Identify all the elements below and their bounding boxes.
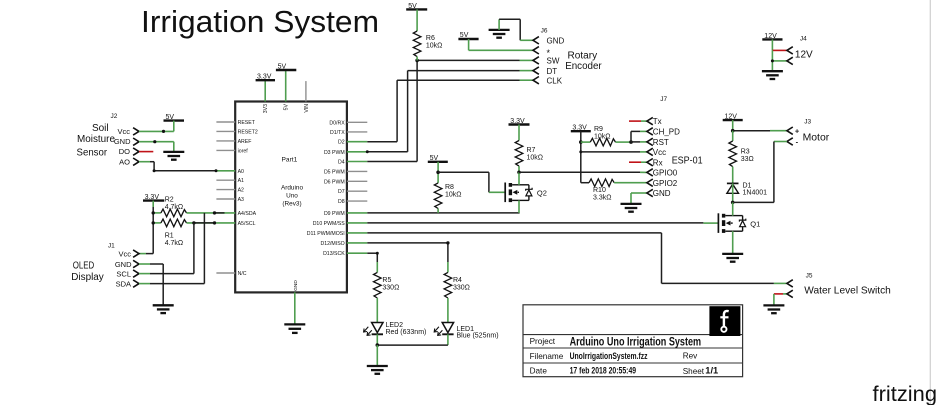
resistor R4 330 bbox=[444, 262, 470, 323]
wire junction to Q2 gate bbox=[438, 172, 505, 192]
svg-text:A2: A2 bbox=[238, 188, 244, 194]
wire R2 to A4/SDA bbox=[187, 212, 217, 214]
diode D1 1N4001 bbox=[727, 183, 767, 203]
svg-text:GPIO2: GPIO2 bbox=[653, 179, 678, 188]
svg-text:DO: DO bbox=[119, 147, 130, 156]
power 5V for J2 bbox=[164, 114, 185, 121]
ground below arduino bbox=[284, 324, 305, 333]
svg-text:J6: J6 bbox=[541, 27, 548, 34]
connector J3 motor arrows bbox=[787, 127, 793, 145]
svg-text:Moisture: Moisture bbox=[77, 134, 115, 145]
wire segment on A4 row bbox=[215, 212, 225, 214]
svg-text:A4/SDA: A4/SDA bbox=[238, 211, 257, 217]
svg-text:R5: R5 bbox=[382, 277, 391, 284]
junction dot J4 pin2 tee bbox=[771, 59, 774, 62]
arduino top/bottom rotated pin labels bbox=[263, 103, 310, 290]
resistor R3 33ohm bbox=[729, 131, 754, 184]
junction dot LED ground node bbox=[376, 343, 380, 347]
wire D4 to encoder SW bbox=[367, 60, 519, 161]
power 3.3V left rail bbox=[143, 194, 164, 201]
wire D12 to R4 bbox=[367, 243, 448, 262]
svg-text:ESP-01: ESP-01 bbox=[672, 156, 703, 167]
svg-text:D0/RX: D0/RX bbox=[329, 120, 345, 126]
ground for J2 bbox=[163, 152, 184, 160]
screen right edge line bbox=[929, 0, 931, 405]
svg-text:OLED: OLED bbox=[73, 260, 95, 271]
LED1 blue bbox=[434, 323, 498, 346]
wire J4 pin1 bbox=[772, 39, 787, 50]
resistor R6 10k bbox=[413, 9, 442, 60]
connector J4 arrows bbox=[787, 47, 793, 65]
svg-text:Project: Project bbox=[530, 337, 556, 346]
svg-text:Rx: Rx bbox=[653, 158, 663, 167]
svg-text:Sensor: Sensor bbox=[77, 148, 108, 159]
power 5V above R8 bbox=[428, 155, 448, 162]
J7 labels bbox=[653, 96, 703, 198]
connector J6 rotary encoder arrows bbox=[533, 37, 539, 84]
svg-text:GND: GND bbox=[547, 36, 565, 45]
red stub ESP Tx bbox=[629, 120, 647, 122]
wire R1 to A5/SCL bbox=[187, 222, 217, 224]
junction dot R8 top bbox=[436, 171, 440, 175]
svg-text:D1/TX: D1/TX bbox=[330, 130, 345, 136]
svg-text:R10: R10 bbox=[593, 187, 606, 194]
svg-text:10kΩ: 10kΩ bbox=[527, 154, 544, 161]
svg-text:Q2: Q2 bbox=[537, 188, 547, 197]
svg-text:330Ω: 330Ω bbox=[453, 284, 470, 291]
power 3.3V above arduino bbox=[256, 74, 275, 81]
svg-text:D5 PWM: D5 PWM bbox=[324, 169, 345, 175]
power 12V for J4 bbox=[762, 33, 782, 40]
arduino right gray stubs bbox=[306, 81, 367, 201]
svg-text:Filename: Filename bbox=[530, 352, 564, 361]
svg-text:RESET: RESET bbox=[238, 120, 256, 126]
svg-text:J7: J7 bbox=[660, 96, 667, 103]
wire to CH_PD bbox=[631, 131, 640, 142]
svg-text:Soil: Soil bbox=[92, 123, 109, 134]
svg-text:R9: R9 bbox=[594, 126, 603, 133]
svg-text:Part1: Part1 bbox=[282, 157, 298, 164]
resistor R9 10k bbox=[581, 126, 631, 146]
wire to RST bbox=[631, 141, 640, 143]
red stub J2 DO bbox=[139, 151, 153, 153]
svg-text:J1: J1 bbox=[108, 243, 115, 250]
svg-text:D3 PWM: D3 PWM bbox=[324, 150, 345, 156]
transistor Q1 bbox=[718, 202, 760, 253]
svg-text:VIN: VIN bbox=[304, 104, 310, 113]
encoder green pin legs bbox=[520, 60, 534, 80]
Q1 source down to ground bbox=[732, 231, 734, 253]
svg-text:J4: J4 bbox=[800, 36, 807, 43]
svg-text:Q1: Q1 bbox=[750, 219, 760, 228]
wire J2 Vcc to 5V bbox=[139, 121, 174, 132]
Q1 drain up to node bbox=[732, 202, 734, 215]
svg-text:R4: R4 bbox=[453, 277, 462, 284]
svg-text:3.3V: 3.3V bbox=[510, 118, 525, 125]
wire to Vcc bbox=[581, 151, 640, 153]
junction dot D1 anode / Q1 drain / motor minus bbox=[731, 201, 735, 205]
resistor R5 330 bbox=[374, 262, 400, 323]
connector J1 OLED display bbox=[71, 243, 132, 289]
svg-text:12V: 12V bbox=[764, 33, 777, 40]
svg-text:A0: A0 bbox=[238, 169, 244, 175]
svg-text:+: + bbox=[795, 126, 800, 135]
svg-text:12V: 12V bbox=[725, 114, 738, 121]
svg-text:Tx: Tx bbox=[653, 117, 662, 126]
svg-text:R1: R1 bbox=[165, 232, 174, 239]
svg-text:Red (633nm): Red (633nm) bbox=[386, 329, 427, 336]
svg-text:D4: D4 bbox=[338, 160, 345, 166]
power 3.3V above R7 bbox=[509, 118, 530, 125]
svg-text:D13/SCK: D13/SCK bbox=[323, 251, 345, 257]
wire motor minus to drain node bbox=[733, 142, 787, 203]
svg-text:3.3kΩ: 3.3kΩ bbox=[593, 194, 611, 201]
svg-text:1/1: 1/1 bbox=[705, 366, 718, 376]
junction dot R9 right / CH_PD / RST bbox=[629, 140, 633, 144]
Q2 source down to D9 wire bbox=[518, 200, 520, 213]
svg-text:D11 PWM/MOSI: D11 PWM/MOSI bbox=[307, 231, 345, 237]
red stub J5 pin2 bbox=[774, 294, 787, 305]
junction dot at D3 stub bbox=[366, 150, 369, 153]
J1 pin arrows bbox=[133, 250, 139, 287]
LED2 red bbox=[364, 322, 427, 345]
svg-text:RESET2: RESET2 bbox=[238, 129, 258, 135]
title block table bbox=[523, 305, 743, 377]
connector J5 arrows bbox=[787, 280, 793, 298]
svg-text:GND: GND bbox=[115, 260, 132, 269]
ESP 3.3V rail down bbox=[581, 131, 589, 183]
resistor R7 10k bbox=[515, 125, 543, 173]
svg-text:SW: SW bbox=[547, 57, 560, 66]
svg-text:AO: AO bbox=[119, 157, 130, 166]
resistor R1 4.7k bbox=[153, 219, 186, 247]
ground for encoder bbox=[489, 30, 510, 38]
svg-text:GND: GND bbox=[293, 280, 299, 291]
ground for Q1 bbox=[722, 254, 743, 262]
VIN top gray stub bbox=[305, 81, 307, 101]
connector J2 soil moisture sensor bbox=[77, 113, 132, 167]
junction dot on Vcc wire bbox=[162, 130, 165, 133]
ground for LEDs bbox=[367, 366, 388, 374]
svg-text:R7: R7 bbox=[527, 147, 536, 154]
svg-text:D8: D8 bbox=[338, 199, 345, 205]
svg-text:J2: J2 bbox=[111, 113, 118, 120]
wire node to ground bbox=[376, 345, 378, 365]
wire 5V to encoder plus bbox=[469, 39, 533, 50]
svg-text:Arduino Uno Irrigation System: Arduino Uno Irrigation System bbox=[570, 334, 702, 348]
svg-text:Motor: Motor bbox=[803, 133, 830, 144]
svg-text:5V: 5V bbox=[408, 3, 417, 10]
svg-text:17 feb 2018 20:55:49: 17 feb 2018 20:55:49 bbox=[570, 366, 637, 376]
svg-text:Uno: Uno bbox=[286, 192, 298, 199]
junction dot 12V/R3/motor bbox=[731, 129, 735, 133]
svg-text:A3: A3 bbox=[238, 197, 244, 203]
svg-text:R6: R6 bbox=[426, 35, 435, 42]
svg-text:J3: J3 bbox=[804, 119, 811, 126]
wire 12V to motor plus bbox=[733, 120, 787, 131]
svg-text:10kΩ: 10kΩ bbox=[426, 43, 443, 50]
svg-text:10kΩ: 10kΩ bbox=[594, 133, 611, 140]
arduino U1 body bbox=[235, 102, 347, 293]
wire J1 SCL to A5 rail bbox=[139, 223, 194, 274]
junction dots on R1/R2 rails bbox=[152, 211, 217, 224]
svg-text:10kΩ: 10kΩ bbox=[445, 191, 462, 198]
svg-text:3.3V: 3.3V bbox=[145, 194, 160, 201]
svg-text:5V: 5V bbox=[166, 114, 175, 121]
wire J2 AO to arduino A0 bbox=[139, 162, 218, 173]
svg-text:Encoder: Encoder bbox=[565, 61, 602, 72]
J4 labels bbox=[795, 36, 813, 61]
svg-text:3.3V: 3.3V bbox=[572, 125, 587, 132]
svg-text:R2: R2 bbox=[165, 197, 174, 204]
svg-text:GND: GND bbox=[114, 137, 131, 146]
svg-text:12V: 12V bbox=[795, 50, 813, 61]
power 5V for encoder plus bbox=[458, 32, 478, 39]
power 3.3V for ESP bbox=[571, 125, 591, 132]
resistor R10 3.3k bbox=[589, 179, 647, 201]
svg-text:330Ω: 330Ω bbox=[382, 284, 399, 291]
svg-text:D6 PWM: D6 PWM bbox=[324, 179, 345, 185]
resistor R8 10k bbox=[434, 162, 461, 213]
svg-text:D2: D2 bbox=[338, 140, 345, 146]
ground for J4 bbox=[762, 71, 783, 79]
arduino green pin stubs bbox=[216, 70, 367, 324]
svg-text:D12/MISO: D12/MISO bbox=[320, 241, 344, 247]
svg-text:GND: GND bbox=[653, 189, 671, 198]
svg-text:Vcc: Vcc bbox=[118, 250, 131, 259]
wire D11 to J5 pin1 bbox=[367, 233, 787, 284]
svg-text:CLK: CLK bbox=[547, 76, 563, 85]
wire segment on A5 row bbox=[194, 222, 215, 224]
svg-text:D9 PWM: D9 PWM bbox=[324, 211, 345, 217]
svg-text:Vcc: Vcc bbox=[653, 148, 666, 157]
svg-text:fritzing: fritzing bbox=[873, 383, 938, 405]
wire D2 to encoder CLK bbox=[367, 80, 519, 142]
power 12V for motor bbox=[723, 114, 743, 121]
svg-text:Irrigation System: Irrigation System bbox=[141, 4, 379, 39]
connector J7 ESP-01 arrows bbox=[647, 117, 653, 196]
junction dot 3.3V/R9 bbox=[579, 140, 583, 144]
fritzing logo bbox=[709, 306, 740, 336]
wire ESP GND to ground bbox=[631, 193, 647, 204]
svg-text:D10 PWM/SS: D10 PWM/SS bbox=[313, 221, 346, 227]
junction dot R7 bottom / Q2 drain / GPIO0 bbox=[517, 171, 521, 175]
J2 pin arrows bbox=[133, 128, 139, 166]
svg-text:5V: 5V bbox=[278, 63, 287, 70]
Q2 drain up to junction bbox=[518, 172, 520, 185]
svg-text:Blue (525nm): Blue (525nm) bbox=[457, 333, 499, 340]
svg-text:5V: 5V bbox=[430, 155, 439, 162]
svg-text:3V3: 3V3 bbox=[263, 104, 269, 113]
wire D13 to R5 bbox=[367, 253, 377, 262]
svg-text:33Ω: 33Ω bbox=[741, 156, 754, 163]
svg-text:SDA: SDA bbox=[116, 280, 131, 289]
wire J1 GND to ground bbox=[139, 264, 163, 305]
junction dot D12/R4 corner bbox=[446, 241, 449, 244]
junction dot D13/R5 corner bbox=[376, 252, 379, 255]
svg-text:Water Level Switch: Water Level Switch bbox=[804, 285, 891, 297]
arduino left pin labels bbox=[238, 120, 258, 277]
svg-text:A5/SCL: A5/SCL bbox=[238, 221, 256, 227]
svg-text:(Rev3): (Rev3) bbox=[282, 200, 301, 207]
svg-text:R8: R8 bbox=[445, 184, 454, 191]
svg-text:UnoIrrigationSystem.fzz: UnoIrrigationSystem.fzz bbox=[570, 351, 648, 361]
svg-text:5V: 5V bbox=[284, 103, 290, 110]
svg-text:3.3V: 3.3V bbox=[257, 74, 272, 81]
svg-text:Display: Display bbox=[71, 272, 104, 283]
svg-text:GPIO0: GPIO0 bbox=[653, 169, 678, 178]
arduino left gray stubs bbox=[216, 122, 235, 273]
J3 labels bbox=[795, 119, 830, 147]
wire J2 GND to ground bbox=[139, 142, 174, 152]
svg-text:N/C: N/C bbox=[238, 271, 247, 277]
svg-text:4.7kΩ: 4.7kΩ bbox=[165, 204, 183, 211]
svg-text:Vcc: Vcc bbox=[117, 127, 130, 136]
red stub ESP Rx bbox=[629, 161, 647, 163]
wire J4 pin2 and ground drop bbox=[772, 50, 787, 71]
power 5V above arduino bbox=[276, 63, 296, 70]
ground for J1 bbox=[153, 305, 174, 313]
resistor R2 4.7k bbox=[153, 197, 186, 217]
ground for J5 bbox=[763, 305, 784, 313]
arduino right pin labels bbox=[307, 120, 345, 257]
svg-text:J5: J5 bbox=[806, 273, 813, 280]
svg-text:4.7kΩ: 4.7kΩ bbox=[165, 240, 183, 247]
svg-text:SCL: SCL bbox=[116, 270, 131, 279]
wire D9 to Q2 source bbox=[367, 212, 519, 214]
svg-text:RST: RST bbox=[653, 138, 669, 147]
svg-text:AREF: AREF bbox=[238, 139, 252, 145]
wire 3.3V rail down to J1 Vcc bbox=[139, 201, 153, 254]
svg-text:1N4001: 1N4001 bbox=[743, 190, 768, 197]
J6 labels bbox=[541, 27, 603, 85]
svg-text:Rev: Rev bbox=[683, 351, 698, 360]
svg-text:Date: Date bbox=[530, 366, 548, 375]
svg-text:DT: DT bbox=[547, 67, 558, 76]
ground for ESP bbox=[621, 204, 642, 212]
wire encoder GND to ground bbox=[499, 19, 533, 40]
svg-text:D1: D1 bbox=[743, 183, 752, 190]
title block texts bbox=[530, 334, 719, 376]
svg-text:CH_PD: CH_PD bbox=[653, 128, 680, 137]
junction dot R6/SW/D4 bbox=[415, 59, 419, 63]
svg-text:R3: R3 bbox=[741, 149, 750, 156]
svg-text:D7: D7 bbox=[338, 189, 345, 195]
transistor Q2 bbox=[505, 172, 547, 213]
wire D10 to Q1 gate bbox=[367, 222, 718, 224]
power 5V above R6 bbox=[406, 3, 427, 10]
wire D3 to encoder DT bbox=[367, 71, 519, 152]
svg-text:5V: 5V bbox=[460, 32, 469, 39]
wire LED cathodes joined bbox=[377, 344, 448, 346]
J5 labels bbox=[804, 273, 891, 297]
svg-text:Arduino: Arduino bbox=[281, 185, 303, 192]
wire J1 SDA to A4 rail bbox=[139, 213, 204, 284]
junction dot Vcc tee bbox=[579, 150, 582, 153]
svg-text:A1: A1 bbox=[238, 178, 244, 184]
svg-text:ioref: ioref bbox=[238, 148, 249, 154]
junction dot on GND wire bbox=[153, 140, 156, 143]
wire GPIO0 row bbox=[519, 171, 647, 173]
svg-text:Sheet: Sheet bbox=[683, 367, 705, 376]
